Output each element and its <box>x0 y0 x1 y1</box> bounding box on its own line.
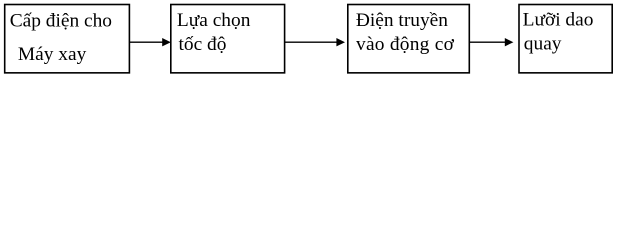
wire: arrow 3 shaft B3→B4 <box>469 41 505 43</box>
box B1 (Cấp điện cho Máy xay) <box>5 5 130 73</box>
box B2 (Lựa chọn tốc độ) <box>171 5 285 73</box>
svg-text:Máy xay: Máy xay <box>18 44 87 65</box>
box B4 (Lưỡi dao quay) <box>519 5 612 73</box>
svg-text:Lựa chọn: Lựa chọn <box>177 10 251 31</box>
svg-text:quay: quay <box>524 33 562 54</box>
arrow 2 head <box>336 38 345 46</box>
wire: arrow 2 shaft B2→B3 <box>285 41 338 43</box>
svg-text:Cấp điện cho: Cấp điện cho <box>10 11 112 32</box>
box B3 (Điện truyền vào động cơ) <box>348 5 470 73</box>
wire: arrow 1 shaft B1→B2 <box>129 41 163 43</box>
svg-text:Điện truyền: Điện truyền <box>356 10 448 31</box>
svg-text:Lưỡi dao: Lưỡi dao <box>523 10 594 31</box>
arrow 3 head <box>505 38 514 46</box>
svg-text:vào động cơ: vào động cơ <box>356 34 455 55</box>
svg-text:tốc độ: tốc độ <box>179 34 227 55</box>
arrow 1 head <box>162 38 171 46</box>
